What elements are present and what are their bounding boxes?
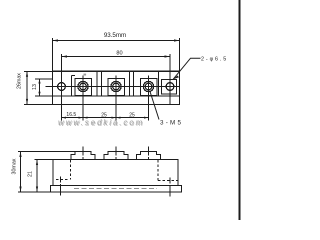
wire hidden line right horizontal [158,180,178,182]
terminal T2 square [108,79,125,96]
wire hidden line left horizontal [56,179,69,181]
wire hidden seam baseplate [74,188,157,190]
arrow 13 top [38,79,40,84]
terminal bump 3 [137,152,161,160]
node bump centerline 1 [82,147,84,156]
svg-text:13: 13 [32,84,38,90]
svg-text:93.5mm: 93.5mm [104,32,126,39]
arrow 21 bottom [36,187,38,193]
wire hidden line right vertical [157,160,159,181]
wire dim line 93.5 [53,40,180,42]
node polarity mark above T1 [84,74,87,76]
wire cell wall C1 [129,72,131,96]
arrow chain 16.5 left [62,117,67,119]
wire cell wall B2 [101,72,103,96]
wire cell wall C2 [133,72,135,96]
svg-text:3-M5: 3-M5 [160,120,183,127]
wire dim line 30max [20,152,22,193]
node vertical centerline hole left [61,54,63,121]
node bump centerline 2 [115,147,117,156]
mounting hole right boss [162,80,177,95]
wire dim chain bottom [62,117,149,119]
wire cell wall B1 [96,72,98,96]
node hole center tick right [169,178,171,184]
arrow 30max top [19,152,21,158]
node vertical centerline T1 [82,76,84,121]
terminal T3 square [140,79,157,96]
arrow chain 16.5 right [79,117,84,119]
side view body outline [53,160,178,186]
node vertical centerline T3 [148,76,150,121]
terminal T1 screw [78,81,88,91]
arrow 93.5 left [53,39,59,41]
arrow 26max bottom [26,99,28,105]
node base centerline right [169,185,171,197]
node horizontal centerline [46,86,180,88]
arrow 13 bottom [38,92,40,97]
node hole center tick left [60,177,62,183]
wire dim line 13 [39,79,41,96]
arrow 80 left [62,55,68,57]
wire cell wall A [72,75,76,96]
arrow 21 top [36,160,38,166]
terminal T1 square [75,79,92,96]
node vertical centerline hole right [169,54,171,104]
wire leader 2-phi6.5 [173,58,200,79]
wire dim line 26max [26,71,28,104]
wire dim line 21 [36,160,38,193]
mounting hole right [166,83,174,91]
arrow leader phi6.5 [173,76,179,80]
svg-text:26max: 26max [17,73,23,89]
terminal T2 screw [111,81,121,91]
arrow chain 25a right [112,117,117,119]
wire leader terminal screw [150,92,159,120]
arrow 80 right [165,55,171,57]
arrow chain 25a left [83,117,88,119]
wire lip line [53,95,180,97]
wire dim line 80 [62,56,171,58]
svg-text:2-φ6.5: 2-φ6.5 [201,57,228,63]
svg-text:80: 80 [116,51,122,57]
wire cell wall D [158,72,160,96]
side view baseplate [51,186,182,193]
terminal T3 screw [143,81,153,91]
arrow chain 25b left [116,117,121,119]
node base centerline left [60,184,62,196]
wire body outline top view [53,71,180,104]
arrow chain 25b right [144,117,149,119]
node bump centerline 3 [148,147,150,156]
border frame right edge [238,0,240,220]
arrow 30max bottom [19,187,21,193]
arrow 26max top [26,71,28,77]
wire hidden line left vertical [70,160,72,180]
terminal bump 2 [104,152,128,160]
svg-text:21: 21 [28,171,34,177]
svg-text:www.sedkia.com: www.sedkia.com [59,119,145,128]
arrows [19,39,179,192]
mounting hole left [58,83,66,91]
arrow 93.5 right [174,39,180,41]
terminal bump 1 [71,152,95,160]
svg-text:30max: 30max [11,158,17,174]
node vertical centerline T2 [115,76,117,121]
